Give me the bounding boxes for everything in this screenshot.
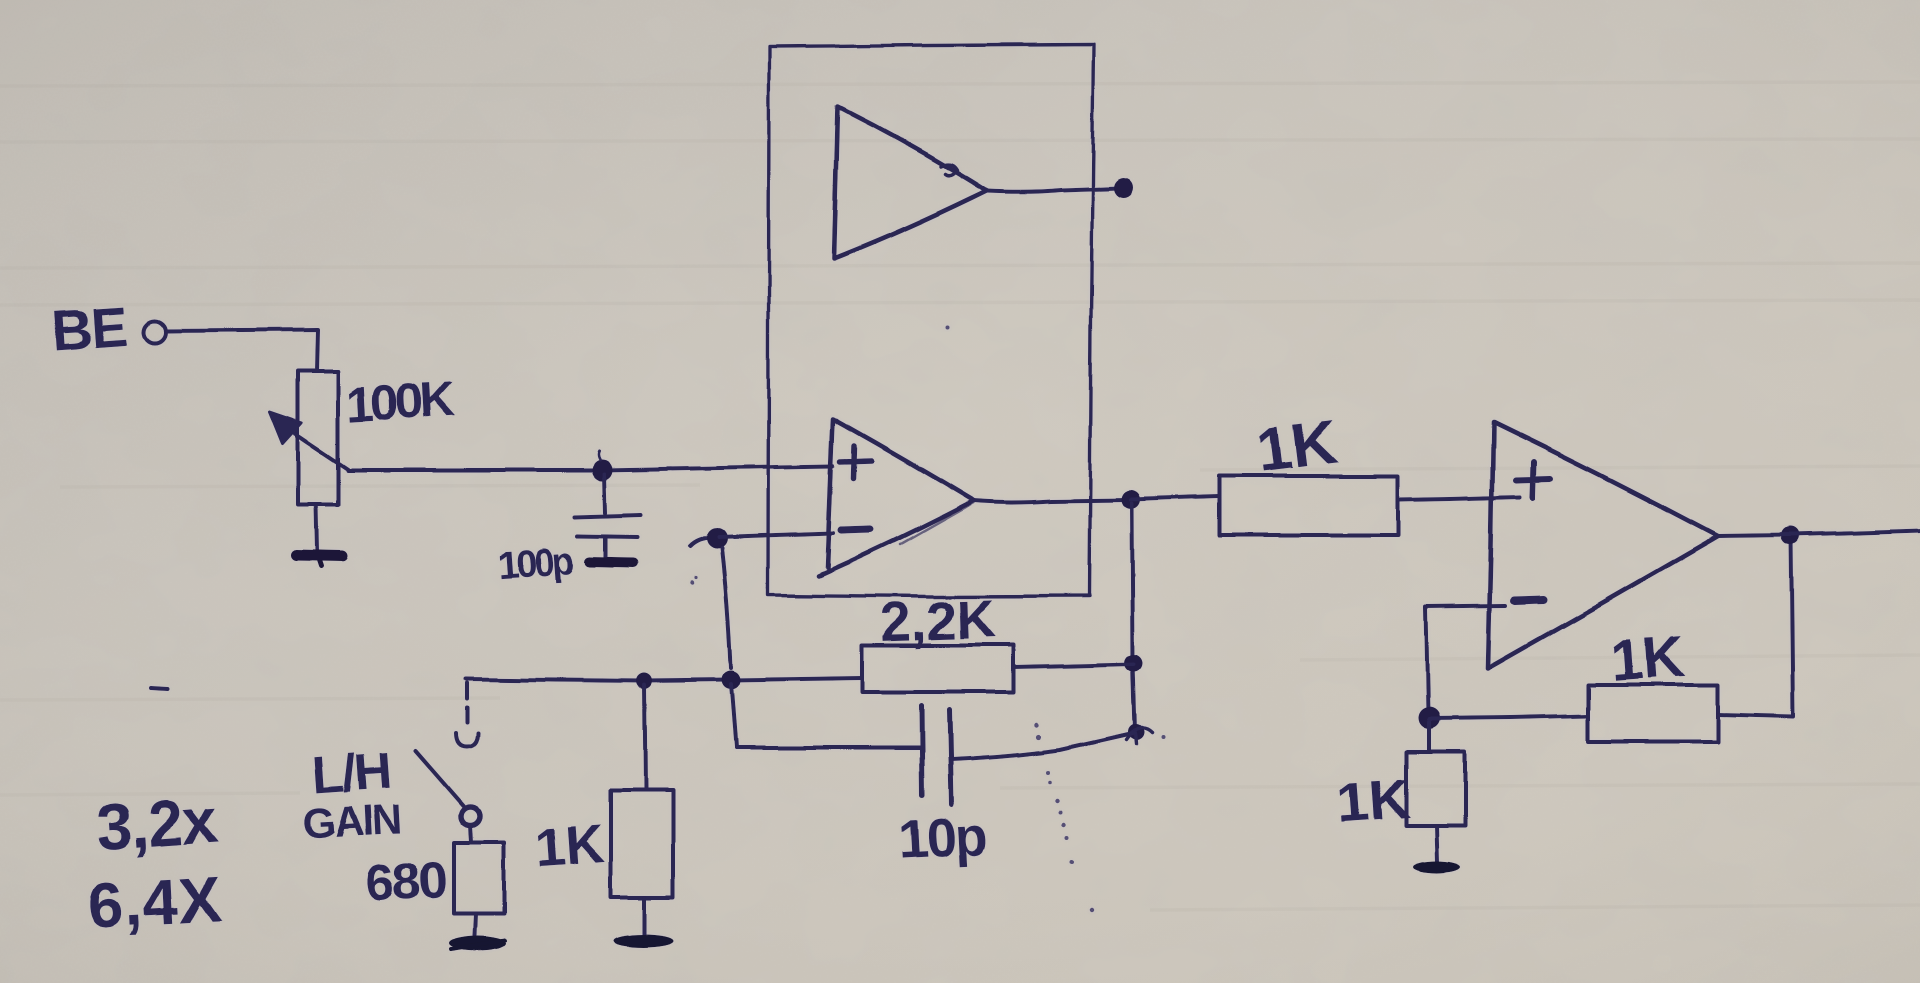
output node A (blob) xyxy=(1114,178,1134,198)
wire op-amp A output xyxy=(987,188,1120,192)
output junction node xyxy=(1781,527,1799,545)
svg-text:100p: 100p xyxy=(496,540,575,587)
junction node switch/1K xyxy=(636,673,652,689)
wire inverting input down xyxy=(1426,608,1428,714)
wire op-amp B output xyxy=(974,500,1128,503)
value label 1K (series) xyxy=(1253,408,1340,486)
value label 1K (to ground) xyxy=(1336,767,1412,835)
wire 2,2K right to node xyxy=(1013,664,1134,667)
resistor R7 lower lead xyxy=(1437,826,1438,861)
annotation 3,2x xyxy=(94,784,221,864)
wire node down to ground resistor xyxy=(1427,722,1431,752)
wire node to op-amp - input xyxy=(719,533,833,537)
wire feedback resistor to output xyxy=(1718,537,1793,716)
stray pen dash xyxy=(151,688,167,689)
input terminal xyxy=(144,321,166,343)
svg-text:100K: 100K xyxy=(345,371,457,433)
wire series resistor to op-amp C xyxy=(1398,497,1520,500)
op-amp C (output stage) xyxy=(1488,422,1718,668)
wire to cap 10p left plate xyxy=(736,746,919,750)
value label 10p xyxy=(897,806,987,870)
IC box U1 xyxy=(768,45,1094,597)
svg-text:1K: 1K xyxy=(1609,624,1688,694)
resistor R5 1K series xyxy=(1219,476,1398,535)
svg-text:6,4X: 6,4X xyxy=(85,863,224,942)
op-amp B (lower) xyxy=(818,419,974,576)
wire op-amp C output xyxy=(1718,531,1920,536)
wire node B down to feedback xyxy=(1132,504,1135,731)
svg-text:10p: 10p xyxy=(897,806,987,870)
switch label GAIN xyxy=(302,795,401,847)
ground (capacitor C1) xyxy=(590,562,633,563)
wire to inverting input of op-amp C xyxy=(1426,606,1505,607)
svg-text:BE: BE xyxy=(50,294,129,362)
value label 2,2K xyxy=(880,589,996,653)
value label 100p xyxy=(496,540,575,587)
op-amp C plus mark xyxy=(1516,462,1551,497)
junction node feedback left xyxy=(722,671,741,690)
output node B junction xyxy=(1122,491,1141,510)
ground (680) xyxy=(450,937,506,952)
node label BE xyxy=(50,294,129,362)
junction node at filter cap xyxy=(592,460,613,481)
potentiometer R1 100K xyxy=(298,371,338,505)
value label 680 xyxy=(364,851,448,913)
svg-text:680: 680 xyxy=(364,851,448,913)
svg-text:3,2x: 3,2x xyxy=(94,784,221,864)
potentiometer lower lead xyxy=(316,505,317,551)
op-amp C minus mark xyxy=(1514,600,1543,601)
wire to series resistor xyxy=(1131,497,1218,500)
resistor R2 2,2K xyxy=(863,645,1013,692)
annotation 6,4X xyxy=(85,863,224,942)
wire wiper to op-amp + input xyxy=(348,466,833,470)
wire node to feedback resistor xyxy=(1429,716,1588,719)
op-amp B minus mark xyxy=(841,529,871,530)
capacitor C2 10p left plate xyxy=(921,706,922,796)
resistor R6 1K feedback xyxy=(1588,685,1718,742)
resistor R7 1K to ground xyxy=(1406,752,1465,826)
switch S1 lower contact xyxy=(461,807,480,826)
switch label L/H xyxy=(310,742,392,805)
capacitor C1 100p xyxy=(604,474,605,513)
op-amp A (upper, unused) xyxy=(834,107,987,259)
wire down to capacitor 10p left xyxy=(731,684,736,748)
wire node down to feedback net xyxy=(722,548,731,668)
wire contact to resistor 680 xyxy=(470,825,471,843)
feedback node upper xyxy=(1125,654,1143,672)
ground (potentiometer) xyxy=(296,555,342,556)
capacitor C2 10p right plate xyxy=(949,710,951,805)
feedback node lower (knot) xyxy=(1128,724,1144,740)
switch S1 upper terminal xyxy=(465,683,469,727)
switch S1 lever xyxy=(415,751,463,806)
value label 1K (feedback) xyxy=(1609,624,1688,694)
resistor R3 1K xyxy=(611,790,673,897)
resistor R4 680 xyxy=(454,843,504,913)
svg-text:GAIN: GAIN xyxy=(302,795,401,847)
svg-text:1K: 1K xyxy=(1336,767,1412,835)
wire BE to potentiometer xyxy=(167,330,317,371)
ink specks xyxy=(690,326,1165,912)
potentiometer wiper arrow xyxy=(285,427,348,469)
wire gain node down to 1K xyxy=(644,685,645,790)
wire gain net horizontal xyxy=(466,678,863,681)
svg-text:1K: 1K xyxy=(1253,408,1340,486)
svg-text:2,2K: 2,2K xyxy=(880,589,996,653)
ground (R7) xyxy=(1413,860,1461,872)
ground (1K) xyxy=(614,934,674,947)
op-amp B plus mark xyxy=(840,446,871,478)
value label 100K xyxy=(345,371,457,433)
svg-text:1K: 1K xyxy=(533,814,606,879)
wire cap 10p right to node xyxy=(951,733,1135,760)
feedback junction node xyxy=(1418,707,1440,729)
resistor 1K lower lead xyxy=(643,897,647,934)
resistor 680 lower lead xyxy=(475,913,476,936)
node at inverting input xyxy=(690,538,716,546)
value label 1K (gain resistor) xyxy=(533,814,606,879)
